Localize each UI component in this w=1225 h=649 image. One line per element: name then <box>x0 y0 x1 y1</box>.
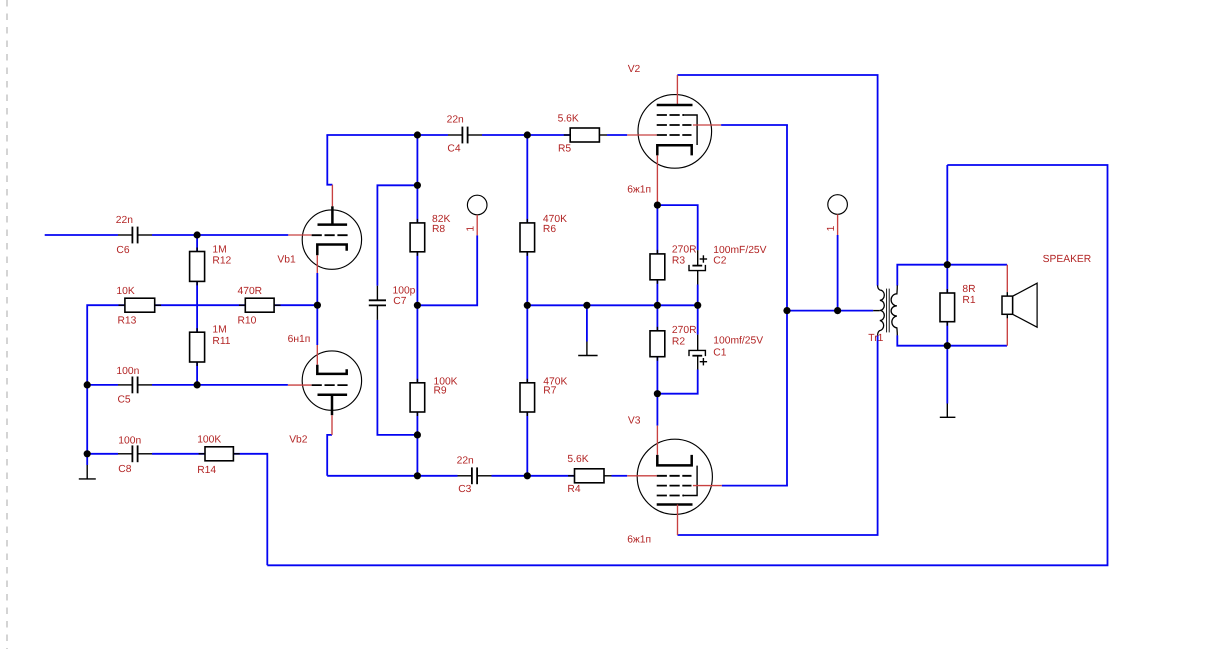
resistor R11 <box>190 332 205 362</box>
wire R12 column top <box>196 235 198 252</box>
svg-text:6ж1п: 6ж1п <box>627 535 651 546</box>
triode Vb1 <box>288 185 361 273</box>
wire R1 top to loop <box>946 165 948 265</box>
ground middle <box>578 355 597 357</box>
svg-text:C3: C3 <box>458 484 471 495</box>
wire R3 to R2 <box>656 280 658 331</box>
capacitor C4 <box>448 127 482 144</box>
resistor R2 <box>650 331 665 357</box>
node C3 left <box>414 472 421 479</box>
node probe2 <box>834 307 841 314</box>
wire bottom long feedback run <box>267 165 1107 565</box>
wire R10 right to cathode junction <box>273 304 317 306</box>
svg-text:1M: 1M <box>212 244 226 255</box>
wire R7 bottom <box>526 412 528 476</box>
svg-text:100K: 100K <box>197 435 221 446</box>
wire C1 upper lead <box>697 305 699 334</box>
wire C8 to R14 <box>152 453 205 455</box>
wire main column x417 middle <box>416 252 418 383</box>
svg-text:5.6K: 5.6K <box>558 114 579 125</box>
wire V2 cathode junction row <box>657 205 697 250</box>
node output bus <box>783 307 790 314</box>
svg-text:R10: R10 <box>238 316 257 327</box>
svg-text:R1: R1 <box>962 295 975 306</box>
wire R4 to V3 grid <box>604 475 612 477</box>
node V2 cathode <box>654 202 661 209</box>
svg-text:R14: R14 <box>197 465 216 476</box>
svg-text:Vb2: Vb2 <box>289 435 308 446</box>
svg-text:1: 1 <box>826 225 837 231</box>
wire R11 bottom <box>196 362 198 385</box>
svg-text:100n: 100n <box>118 436 141 447</box>
wire output row to transformer <box>787 310 873 312</box>
svg-text:C2: C2 <box>713 256 726 267</box>
resistor R14 <box>205 447 233 461</box>
svg-text:5.6K: 5.6K <box>567 454 588 465</box>
node C2-C1 <box>694 302 701 309</box>
svg-text:470R: 470R <box>238 286 263 297</box>
wire ground stub left <box>86 454 88 465</box>
node V3 cathode <box>654 390 661 397</box>
wire main column x417 lower <box>416 412 418 476</box>
wire V2 plate to transformer <box>677 75 877 286</box>
svg-text:6н1п: 6н1п <box>288 334 311 345</box>
node C5 left <box>84 381 91 388</box>
resistor R5 <box>570 128 599 142</box>
node R8 bottom <box>414 302 421 309</box>
svg-text:270R: 270R <box>672 245 697 256</box>
svg-text:R2: R2 <box>672 336 685 347</box>
svg-text:R7: R7 <box>543 386 556 397</box>
svg-text:C1: C1 <box>713 348 726 359</box>
svg-text:V2: V2 <box>628 64 641 75</box>
capacitor C2 electrolytic <box>689 250 707 284</box>
svg-text:R9: R9 <box>434 386 447 397</box>
wire C2 lower lead <box>697 285 699 306</box>
ground left <box>79 478 96 480</box>
svg-text:Vb1: Vb1 <box>277 255 296 266</box>
wire Vb2 plate down link <box>327 435 332 476</box>
svg-text:10K: 10K <box>116 286 134 297</box>
svg-text:SPEAKER: SPEAKER <box>1043 254 1092 265</box>
svg-text:R5: R5 <box>558 144 571 155</box>
wire C8 row left <box>87 453 118 455</box>
wire C4 row right to R5 <box>482 134 570 136</box>
wire V3 cathode feed <box>656 394 658 426</box>
svg-text:22n: 22n <box>116 215 133 226</box>
capacitor C6 <box>118 227 152 244</box>
node R3-R2 <box>654 302 661 309</box>
wire input row left <box>45 234 118 236</box>
svg-text:8R: 8R <box>962 284 975 295</box>
probe node 1 left <box>466 195 487 235</box>
wire main column x417 upper <box>416 135 418 223</box>
svg-text:C7: C7 <box>393 296 406 307</box>
resistor R6 <box>520 223 535 252</box>
svg-text:Tr1: Tr1 <box>868 333 883 344</box>
wire R2 bottom <box>656 357 658 394</box>
resistor R3 <box>650 254 665 280</box>
wire ground stub right <box>946 346 948 404</box>
wire C7 top link <box>377 185 417 285</box>
capacitor C7 <box>369 286 386 320</box>
svg-text:1: 1 <box>466 226 477 232</box>
svg-text:R8: R8 <box>432 224 445 235</box>
node C8 left <box>84 450 91 457</box>
wire C5 row left <box>87 384 118 386</box>
svg-text:C4: C4 <box>447 143 460 154</box>
transformer Tr1 <box>873 285 897 335</box>
svg-text:V3: V3 <box>628 415 641 426</box>
capacitor C3 <box>458 467 492 484</box>
wire R1 column bottom <box>946 322 948 346</box>
resistor R4 <box>575 469 605 483</box>
node C5 right <box>194 381 201 388</box>
resistor R12 <box>190 252 205 282</box>
ground right <box>940 416 956 418</box>
node R6 bottom <box>524 302 531 309</box>
capacitor C5 <box>118 377 152 394</box>
wire C3 row right to R4 <box>492 475 575 477</box>
node R9 bottom <box>414 431 421 438</box>
wire Vb1 plate up link <box>327 135 332 185</box>
svg-text:C8: C8 <box>118 464 131 475</box>
wire C3 row left <box>327 475 457 477</box>
wire secondary top row <box>897 265 1007 286</box>
node C6-R12 <box>194 231 201 238</box>
node C4 right <box>524 131 531 138</box>
resistor R8 <box>410 223 425 252</box>
wire C5 row right to Vb2 grid <box>152 384 288 386</box>
svg-text:R11: R11 <box>212 336 230 347</box>
wire R1 column top <box>946 265 948 293</box>
wire V2 screen output <box>721 124 788 126</box>
node C4 left <box>414 131 421 138</box>
speaker SP1 <box>1002 265 1037 346</box>
resistor R9 <box>410 383 425 412</box>
triode Vb2 <box>288 345 362 435</box>
node R1 top <box>944 261 951 268</box>
wire C4 row left <box>326 134 448 136</box>
wire R12 to R11 <box>196 281 198 332</box>
wire V3 screen output <box>722 485 788 487</box>
svg-text:22n: 22n <box>457 456 474 467</box>
pentode V2 <box>627 75 721 205</box>
wire R14 to feedback loop corner <box>233 454 267 566</box>
resistor R10 <box>245 298 274 312</box>
capacitor C8 <box>118 445 152 462</box>
pentode V3 <box>627 426 722 535</box>
wire cathode RC row <box>527 304 697 306</box>
wire ground stub middle <box>586 305 588 341</box>
resistor R1 <box>940 293 955 322</box>
node ground row <box>583 302 590 309</box>
wire R3 column top <box>656 205 658 254</box>
svg-text:270R: 270R <box>672 325 697 336</box>
wire Vb1 cathode down link <box>316 273 318 305</box>
wire input row right of C6 to Vb1 grid <box>152 234 288 236</box>
svg-text:R12: R12 <box>212 256 231 267</box>
resistor R7 <box>520 383 535 412</box>
wire C7 bottom link <box>377 320 417 435</box>
wire transformer bottom to V3 plate <box>678 335 878 535</box>
capacitor C1 electrolytic <box>689 335 707 370</box>
node R8 top <box>414 182 421 189</box>
svg-text:R13: R13 <box>118 316 137 327</box>
svg-text:100mF/25V: 100mF/25V <box>713 245 766 256</box>
svg-text:R4: R4 <box>567 484 580 495</box>
wire R6 column top <box>526 135 528 223</box>
svg-text:1M: 1M <box>212 325 226 336</box>
wire Vb2 cathode up link <box>316 305 318 345</box>
svg-text:100mf/25V: 100mf/25V <box>713 336 763 347</box>
wire secondary bottom row <box>897 335 1007 346</box>
svg-text:6ж1п: 6ж1п <box>627 185 651 196</box>
node R1 bottom <box>944 342 951 349</box>
wire R6 to R7 <box>526 252 528 383</box>
wire R13 row left end <box>87 305 125 454</box>
wire probe2 column <box>837 235 839 311</box>
svg-text:22n: 22n <box>447 114 464 125</box>
svg-text:100n: 100n <box>116 366 139 377</box>
wire output bus vertical <box>786 125 788 486</box>
wire C1 lower link <box>657 370 697 394</box>
svg-text:C5: C5 <box>118 395 131 406</box>
probe node 1 right <box>826 195 848 235</box>
wire probe1 column <box>417 235 477 305</box>
node cathodes Vb <box>314 302 321 309</box>
svg-text:R3: R3 <box>672 256 685 267</box>
wire R13 to R10 <box>155 304 246 306</box>
wire R5 to V2 grid <box>599 134 607 136</box>
node C3 right <box>524 472 531 479</box>
svg-text:C6: C6 <box>116 245 129 256</box>
resistor R13 <box>125 298 155 312</box>
svg-text:R6: R6 <box>543 224 556 235</box>
